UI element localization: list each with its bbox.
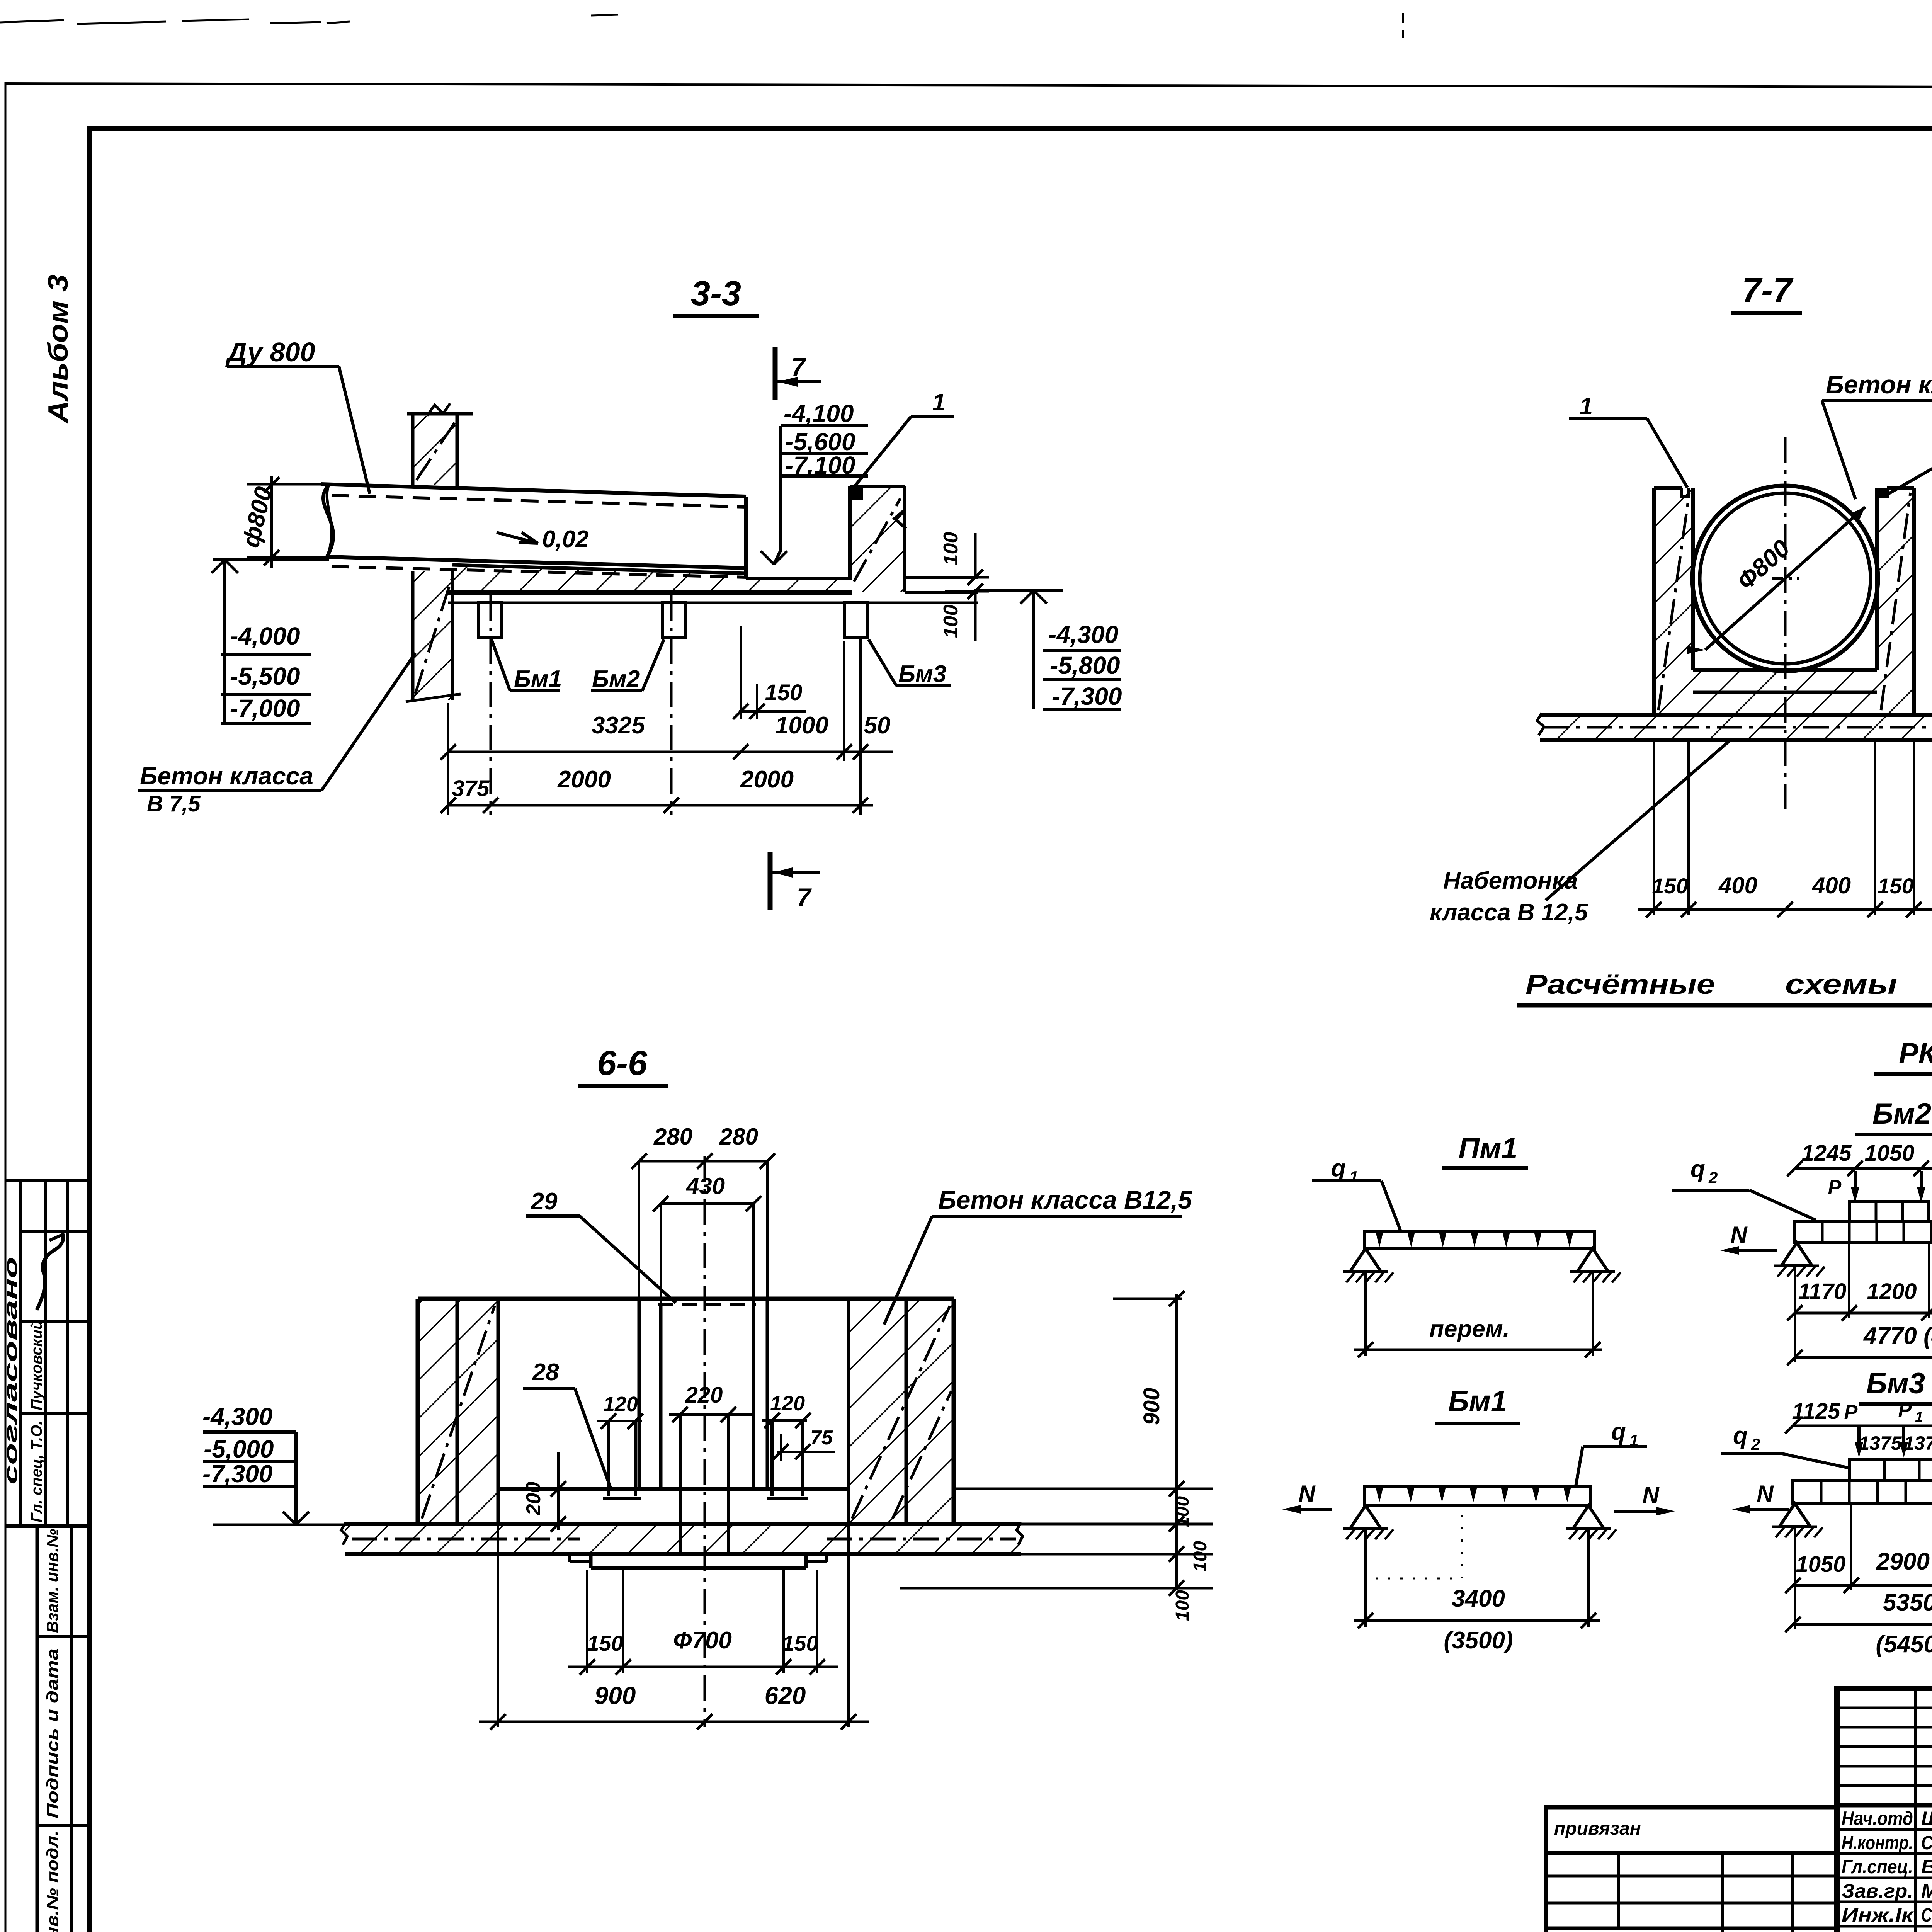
svg-text:Власенко: Власенко [1921, 1856, 1932, 1878]
sheet outer border left [5, 82, 7, 1932]
dimension row 2: 375 2000 2000 [448, 804, 873, 807]
svg-text:7-7: 7-7 [1742, 271, 1794, 310]
pipe left break curve [323, 484, 333, 557]
svg-text:Альбом 3: Альбом 3 [43, 274, 74, 424]
bottom dim line 150 400 400 150 [1638, 908, 1932, 911]
svg-text:Бетон класса В12,5: Бетон класса В12,5 [938, 1185, 1192, 1214]
svg-text:(3500): (3500) [1444, 1627, 1513, 1654]
column above pipe [407, 412, 473, 416]
svg-text:2000: 2000 [740, 766, 794, 793]
svg-text:согласовано: согласовано [1, 1257, 21, 1485]
svg-text:150: 150 [782, 1631, 818, 1655]
channel U-shape hatched walls [1654, 488, 1693, 715]
6-6 left wall dash-dot [422, 1306, 495, 1519]
svg-text:900: 900 [1139, 1388, 1164, 1425]
Бм3 top dim 1125 Р Р1 Р 1175 [1793, 1425, 1932, 1427]
6-6 left wall hatch [418, 1299, 498, 1524]
svg-text:Бм3: Бм3 [1866, 1367, 1925, 1400]
Бм1 scan dotted artifact [1461, 1515, 1463, 1578]
svg-text:220: 220 [685, 1383, 723, 1408]
6-6 right wall dash-dots [852, 1306, 950, 1519]
svg-text:перем.: перем. [1429, 1316, 1510, 1342]
svg-text:q: q [1611, 1418, 1626, 1445]
svg-text:N: N [1298, 1481, 1316, 1507]
6-6 right wall hatch [849, 1299, 954, 1524]
title block upper thin rows [1837, 1707, 1932, 1709]
svg-text:Взам. инв.№: Взам. инв.№ [43, 1529, 61, 1633]
svg-text:Инж.Iк: Инж.Iк [1842, 1904, 1914, 1926]
svg-text:Бм2: Бм2 [1872, 1097, 1931, 1130]
svg-text:-5,500: -5,500 [230, 662, 300, 690]
svg-text:29: 29 [531, 1188, 558, 1215]
svg-text:4770 (4870): 4770 (4870) [1863, 1323, 1932, 1349]
svg-text:N: N [1757, 1481, 1774, 1507]
slab bottom thick line [448, 590, 852, 595]
channel left wall outline [1652, 488, 1656, 715]
svg-text:150: 150 [765, 680, 803, 705]
extension lines for dims [447, 703, 449, 815]
slab dash-dot axis [1544, 726, 1932, 729]
left wall top notch [1682, 488, 1689, 497]
svg-text:-7,000: -7,000 [230, 694, 300, 722]
svg-text:Инв.№ подл.: Инв.№ подл. [43, 1830, 61, 1932]
svg-text:Расчётные: Расчётные [1526, 969, 1715, 1000]
svg-text:150: 150 [587, 1631, 623, 1655]
svg-text:200: 200 [522, 1482, 545, 1516]
svg-text:Р: Р [1898, 1399, 1912, 1421]
svg-text:7: 7 [797, 883, 812, 912]
6-6 slab left end break [341, 1522, 347, 1545]
ceiling slab hatched band [452, 565, 746, 592]
svg-text:100: 100 [940, 605, 962, 638]
left stamp bottom cells [36, 1526, 39, 1932]
svg-text:Р: Р [1828, 1176, 1842, 1199]
detail 1 black corner [850, 486, 863, 500]
svg-text:3-3: 3-3 [691, 274, 741, 313]
svg-text:-7,300: -7,300 [202, 1460, 272, 1488]
Пм1 left support [1350, 1248, 1381, 1272]
title block signature rows [1837, 1828, 1932, 1831]
label Bm1 with leader [492, 639, 510, 691]
6-6 pipe bottom cap [680, 1553, 728, 1556]
pipe center mark [1772, 577, 1799, 580]
svg-text:Нач.отд: Нач.отд [1842, 1808, 1913, 1829]
svg-text:N: N [1730, 1222, 1748, 1248]
wall dash-dot diagonals [1658, 493, 1689, 710]
6-6 right level lines [954, 1488, 1213, 1490]
svg-text:Ду 800: Ду 800 [225, 337, 315, 367]
floor slab hatched [1542, 715, 1932, 740]
rib beam Bm2 [663, 603, 685, 638]
dimension row 1: 3325 1000 50 [448, 751, 893, 753]
6-6 bottom extension lines [497, 1492, 499, 1727]
svg-text:схемы: схемы [1785, 969, 1897, 1000]
6-6 interior opening verticals [638, 1299, 641, 1489]
svg-text:Соколовская: Соколовская [1921, 1904, 1932, 1926]
Бм3 left support [1779, 1503, 1810, 1527]
svg-text:1375: 1375 [1859, 1432, 1902, 1454]
Пм1 dim line [1354, 1349, 1602, 1351]
6-6 slab dash-dot segments [352, 1538, 580, 1541]
elevation leader arrow to step [779, 426, 782, 551]
elevation mark right -4,300 stack [974, 589, 1063, 592]
6-6 center axis dash-dot [704, 1156, 706, 1727]
left wall below pipe [411, 571, 415, 700]
svg-text:-4,100: -4,100 [784, 400, 854, 427]
elevation mark left -4,000 [213, 558, 329, 561]
svg-text:привязан: привязан [1554, 1818, 1641, 1839]
svg-text:-4,000: -4,000 [230, 622, 300, 650]
svg-text:Н.контр.: Н.контр. [1842, 1832, 1913, 1854]
svg-text:N: N [1642, 1482, 1660, 1508]
Бм2 top dim 1245 1050 2475 [1795, 1167, 1932, 1170]
Бм2 left support [1781, 1243, 1812, 1266]
Бм3 P arrows [1857, 1427, 1861, 1444]
Бм2 q2 block [1849, 1202, 1929, 1221]
svg-text:(5450): (5450) [1876, 1631, 1932, 1658]
svg-text:3400: 3400 [1452, 1585, 1505, 1612]
svg-text:Гл. спец, Т.О.: Гл. спец, Т.О. [28, 1421, 45, 1522]
svg-text:0,02: 0,02 [542, 526, 589, 553]
svg-text:Шейко: Шейко [1921, 1808, 1932, 1829]
svg-text:1125: 1125 [1792, 1399, 1840, 1424]
svg-text:Бм1: Бм1 [514, 666, 562, 692]
title block outer box [1837, 1689, 1932, 1932]
Бм1 dim 3400 (3500) [1354, 1619, 1600, 1622]
Бм3 q2 block [1849, 1459, 1932, 1480]
svg-text:Бм3: Бм3 [898, 661, 946, 687]
svg-text:РКм2: РКм2 [1899, 1037, 1932, 1070]
pipe centerline vertical [1784, 437, 1787, 815]
svg-text:120: 120 [603, 1393, 638, 1416]
dim 150 small [739, 710, 806, 713]
svg-text:1375: 1375 [1903, 1432, 1932, 1454]
pipe bottom line [327, 557, 746, 568]
Бм3 beam bar [1793, 1480, 1932, 1503]
svg-text:-4,300: -4,300 [202, 1403, 272, 1430]
Бм1 beam with load [1365, 1486, 1590, 1505]
6-6 dim 150 Ф700 150 [568, 1666, 838, 1668]
pipe circle partial arc [1693, 485, 1781, 603]
6-6 box outline [418, 1297, 954, 1301]
column dash-dot diagonal [417, 422, 455, 480]
svg-text:1050: 1050 [1864, 1141, 1914, 1166]
sheet outer border top [5, 83, 1932, 88]
right wall dash-dot diagonal [854, 498, 900, 582]
nabetonka band in channel [1693, 670, 1877, 692]
section cut mark 7 top [773, 347, 778, 400]
left wall dash-dot diagonal [415, 580, 451, 694]
vertical dim 100 100 right of wall [974, 533, 977, 577]
svg-text:100: 100 [1172, 1496, 1193, 1527]
slab left break [1537, 713, 1544, 735]
svg-text:28: 28 [532, 1359, 559, 1386]
Пм1 beam with load [1365, 1231, 1594, 1248]
svg-text:280: 280 [719, 1124, 758, 1150]
svg-text:-4,300: -4,300 [1048, 621, 1118, 648]
svg-text:280: 280 [653, 1124, 692, 1150]
pipe circle outer [1692, 486, 1878, 671]
6-6 floor slab hatched [345, 1524, 1021, 1554]
bottom extension lines (7-7) [1653, 740, 1655, 915]
slab lower thin line [448, 602, 978, 604]
svg-text:1200: 1200 [1867, 1279, 1917, 1304]
svg-text:Р: Р [1844, 1401, 1858, 1423]
channel right wall outline [1912, 488, 1916, 715]
Бм2 mid dim 1170 1200 2400 [1848, 1243, 1850, 1318]
diameter line Ф800 [1705, 507, 1865, 650]
svg-text:Мазалова: Мазалова [1921, 1880, 1932, 1902]
section cut mark 7 bottom [768, 852, 773, 910]
6-6 pit outline [589, 1554, 593, 1568]
svg-text:-7,300: -7,300 [1052, 682, 1122, 710]
Бм3 mid dim 1050 2900 1400 [1850, 1503, 1852, 1590]
svg-text:2000: 2000 [557, 766, 611, 793]
svg-text:7: 7 [791, 352, 807, 381]
svg-text:1: 1 [1580, 393, 1593, 420]
Бм2 P arrows [1854, 1171, 1857, 1188]
svg-text:Инв.№: Инв.№ [1554, 1930, 1616, 1932]
Бм3 bottom dim 5350 (5450) [1793, 1623, 1932, 1626]
svg-text:75: 75 [810, 1427, 833, 1449]
left stamp signature scribble [37, 1233, 63, 1310]
svg-text:100: 100 [1172, 1590, 1193, 1621]
svg-text:Сокольская: Сокольская [1921, 1832, 1932, 1854]
svg-text:-5,800: -5,800 [1050, 651, 1120, 679]
6-6 slab right end break [1017, 1522, 1023, 1545]
svg-text:375: 375 [452, 776, 490, 801]
scan noise top edge [0, 20, 64, 22]
svg-text:2: 2 [1751, 1435, 1760, 1453]
6-6 central ribs [607, 1421, 610, 1496]
svg-text:1: 1 [932, 389, 946, 416]
rib beam Bm3 [844, 603, 867, 638]
svg-text:Инж.: Инж. [1842, 1929, 1891, 1932]
svg-text:q: q [1733, 1422, 1748, 1449]
Бм1 span verticals [1364, 1529, 1367, 1627]
svg-text:120: 120 [770, 1392, 805, 1415]
right wall of section 3-3 [848, 486, 852, 578]
svg-text:В 7,5: В 7,5 [147, 791, 201, 816]
6-6 dim 430 [661, 1202, 753, 1205]
svg-text:q: q [1331, 1155, 1346, 1182]
svg-text:Пм1: Пм1 [1458, 1132, 1517, 1165]
Пм1 span verticals [1364, 1272, 1367, 1356]
svg-text:Пучковский: Пучковский [28, 1320, 45, 1410]
svg-text:Ф700: Ф700 [673, 1627, 732, 1654]
svg-text:3325: 3325 [592, 712, 645, 739]
svg-text:50: 50 [864, 712, 891, 739]
svg-text:Подпись и дата: Подпись и дата [43, 1648, 61, 1818]
svg-text:1245: 1245 [1801, 1141, 1852, 1166]
svg-text:900: 900 [595, 1682, 636, 1709]
svg-text:1: 1 [1915, 1409, 1923, 1425]
svg-text:q: q [1690, 1156, 1705, 1182]
6-6 dim 900 620 [479, 1721, 869, 1723]
6-6 hidden opening dashed line [658, 1303, 756, 1306]
attachment table left of title block [1546, 1807, 1837, 1932]
svg-text:Бм1: Бм1 [1448, 1385, 1507, 1418]
label Bm2 with leader [642, 639, 664, 691]
6-6 right vertical dim 900 100 100 100 [1175, 1294, 1178, 1590]
svg-text:Бетон класса В12,5: Бетон класса В12,5 [1826, 370, 1932, 399]
Бм2 bottom dim 4770(4870) [1795, 1356, 1932, 1359]
pipe circle inner [1700, 493, 1871, 664]
svg-text:1170: 1170 [1798, 1279, 1847, 1304]
rib beam Bm1 [479, 603, 502, 638]
svg-text:Бетон класса: Бетон класса [140, 762, 313, 790]
6-6 dim 280 280 [639, 1160, 767, 1163]
Бм1 right support [1573, 1505, 1604, 1529]
svg-text:100: 100 [940, 532, 962, 566]
channel floor at outlet [746, 577, 852, 580]
Бм1 left support [1350, 1505, 1381, 1529]
svg-text:класса В 12,5: класса В 12,5 [1430, 899, 1588, 926]
svg-text:Бм2: Бм2 [592, 666, 640, 692]
left stamp: coordination box [5, 1179, 88, 1182]
svg-text:6-6: 6-6 [597, 1044, 648, 1083]
right wall top notch [1880, 488, 1887, 497]
left wall bottom break [406, 694, 461, 702]
svg-text:150: 150 [1652, 874, 1688, 898]
title block signature columns [1914, 1689, 1917, 1932]
Пм1 right support [1577, 1248, 1608, 1272]
slab lines right of wall [905, 576, 978, 579]
svg-text:1000: 1000 [775, 712, 828, 739]
svg-text:2: 2 [1708, 1168, 1718, 1187]
pipe top dashed inner line [332, 495, 746, 507]
svg-text:2900: 2900 [1876, 1548, 1930, 1575]
pipe Ду800 body top line [321, 484, 746, 497]
svg-text:400: 400 [1718, 872, 1757, 898]
top center registration tick [1402, 13, 1404, 38]
label Bm3 with leader [869, 639, 896, 686]
svg-text:Шильмовер: Шильмовер [1921, 1929, 1932, 1932]
Бм2 beam bar [1795, 1221, 1932, 1243]
svg-text:1: 1 [1349, 1168, 1358, 1186]
svg-text:100: 100 [1190, 1541, 1211, 1572]
svg-text:400: 400 [1812, 872, 1851, 898]
pipe bottom dashed line [332, 566, 746, 577]
svg-text:Гл.спец.: Гл.спец. [1842, 1856, 1913, 1878]
pipe end vertical at wall [744, 497, 748, 578]
svg-text:5350: 5350 [1883, 1589, 1932, 1616]
right wall break zigzag [895, 510, 906, 529]
svg-text:620: 620 [765, 1682, 806, 1709]
svg-text:Зав.гр.: Зав.гр. [1842, 1880, 1913, 1902]
svg-text:1050: 1050 [1796, 1552, 1845, 1577]
svg-text:-5,000: -5,000 [204, 1435, 274, 1463]
svg-text:150: 150 [1878, 874, 1913, 898]
svg-text:430: 430 [686, 1173, 725, 1199]
